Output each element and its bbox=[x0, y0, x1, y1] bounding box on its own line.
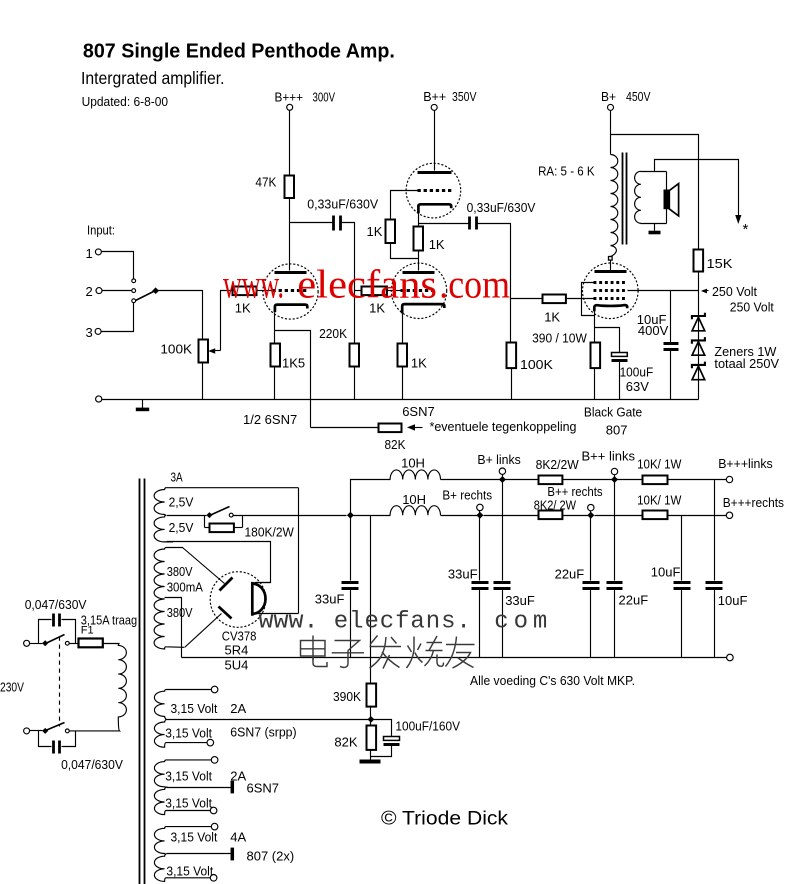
wire selector to volume pot bbox=[156, 291, 203, 340]
svg-text:3,15 Volt: 3,15 Volt bbox=[171, 701, 218, 716]
mains primary winding bbox=[69, 643, 126, 731]
tube V2a envelope (upper) bbox=[406, 163, 461, 218]
resistor 390K bbox=[367, 684, 377, 707]
svg-text:22uF: 22uF bbox=[555, 567, 585, 582]
807 cathode bbox=[594, 305, 627, 311]
svg-text:1K5: 1K5 bbox=[282, 356, 305, 371]
svg-text:com: com bbox=[494, 609, 547, 636]
ground terminal bbox=[96, 396, 102, 402]
capacitor 100uF/160V bbox=[384, 737, 400, 741]
chinese watermark 友 bbox=[446, 637, 475, 669]
capacitor 10uF (B+++ rechts) bbox=[681, 516, 683, 581]
winding C terminal top bbox=[211, 823, 218, 830]
B++ rechts junction dot bbox=[587, 512, 594, 519]
B++ links junction dot bbox=[611, 476, 618, 483]
wire pot wiper to grid resistor bbox=[221, 291, 233, 351]
resistor 1K grid V2a bbox=[386, 220, 396, 244]
svg-text:390K: 390K bbox=[333, 689, 361, 704]
wire 1K to bias tee bbox=[391, 243, 419, 259]
wire 8K2 to B++ links bbox=[563, 479, 615, 481]
807 grid stopper lead bbox=[511, 298, 543, 300]
switch link (dashed) bbox=[59, 637, 61, 727]
resistor 100K (grid leak 807) bbox=[507, 343, 517, 369]
svg-text:15K: 15K bbox=[707, 256, 733, 271]
svg-text:Alle voeding C's 630 Volt MKP.: Alle voeding C's 630 Volt MKP. bbox=[470, 673, 635, 688]
CV378 filament bbox=[252, 582, 265, 616]
svg-text:1K: 1K bbox=[544, 310, 560, 325]
svg-text:230V: 230V bbox=[0, 679, 24, 694]
filament winding 2,5V lower bbox=[154, 515, 173, 542]
secondary bottom wire bbox=[641, 223, 667, 225]
svg-text:B+++: B+++ bbox=[275, 90, 304, 105]
svg-text:© Triode Dick: © Triode Dick bbox=[381, 808, 508, 830]
CT junction dot bbox=[368, 716, 375, 723]
resistor 1K grid V1 bbox=[233, 287, 257, 296]
rectifier tube CV378 envelope bbox=[210, 572, 266, 628]
standby switch blade bbox=[210, 507, 230, 516]
svg-text:10uF: 10uF bbox=[718, 593, 748, 608]
svg-text:B++ rechts: B++ rechts bbox=[547, 484, 603, 499]
winding C (807) bbox=[154, 827, 211, 882]
svg-text:10H: 10H bbox=[401, 456, 425, 471]
svg-text:3A: 3A bbox=[171, 470, 183, 485]
beam plate bracket to cathode bbox=[582, 283, 595, 316]
cathode bypass tee bbox=[595, 328, 620, 353]
HV winding 380-0-380 bbox=[154, 548, 184, 650]
svg-text:6SN7 (srpp): 6SN7 (srpp) bbox=[230, 725, 296, 740]
mains terminal bottom bbox=[24, 728, 30, 734]
top cap leads bbox=[39, 620, 52, 644]
TITLE BLOCK bbox=[81, 41, 395, 109]
HV bottom lead to anode 2 bbox=[185, 614, 222, 648]
winding A terminal bottom bbox=[207, 739, 214, 746]
svg-text:F1: F1 bbox=[81, 625, 94, 637]
svg-text:300mA: 300mA bbox=[167, 580, 203, 595]
wire B+ rechts to 390K bbox=[370, 516, 372, 684]
V2a grid (dotted) bbox=[418, 189, 452, 192]
svg-text:220K: 220K bbox=[319, 326, 347, 341]
fuse F1 bbox=[79, 639, 103, 648]
svg-text:100uF/160V: 100uF/160V bbox=[395, 718, 460, 733]
grid junction wire bbox=[355, 290, 362, 292]
svg-text:4A: 4A bbox=[230, 829, 246, 844]
wire top cap to plate bbox=[610, 261, 612, 271]
svg-text:33uF: 33uF bbox=[505, 593, 535, 608]
B+ rechts terminal bbox=[477, 504, 483, 510]
input terminal 3 bbox=[95, 328, 101, 334]
wire 1K to V2b plate bbox=[418, 251, 420, 271]
svg-text:8K2/2W: 8K2/2W bbox=[536, 457, 580, 472]
CV378 anode 1 bbox=[220, 578, 233, 591]
feedback arrow bbox=[411, 427, 423, 429]
svg-text:elecfans: elecfans bbox=[297, 262, 437, 307]
svg-text:0,33uF/630V: 0,33uF/630V bbox=[467, 200, 536, 215]
807 cathode lead bbox=[594, 311, 596, 343]
HV top lead to anode 1 bbox=[183, 548, 225, 584]
180K/2W parallel connections bbox=[204, 516, 206, 528]
CV378 anode 2 bbox=[219, 607, 232, 619]
capacitor 10uF (B+++ links) bbox=[714, 480, 716, 581]
pot bottom to ground rail bbox=[202, 363, 204, 400]
capacitor 22uF (B++ links) bbox=[614, 480, 616, 581]
capacitor 100uF/160V branch bbox=[371, 720, 392, 737]
mains switch blade top bbox=[46, 635, 65, 644]
svg-text:B++ links: B++ links bbox=[582, 448, 636, 463]
svg-text:1: 1 bbox=[86, 246, 93, 261]
svg-text:3,15 Volt: 3,15 Volt bbox=[166, 864, 213, 879]
resistor 390/10W bbox=[591, 343, 601, 369]
winding B terminal top bbox=[211, 757, 218, 764]
100uF return wire bbox=[371, 746, 392, 757]
svg-text:100uF: 100uF bbox=[620, 365, 654, 380]
svg-text:B++: B++ bbox=[423, 89, 446, 104]
svg-text:10K/ 1W: 10K/ 1W bbox=[637, 457, 682, 472]
winding B center tap bbox=[167, 787, 231, 789]
wire filament to 2,5V top winding bbox=[298, 488, 300, 614]
resistor 1K (807 grid) bbox=[543, 295, 566, 304]
transformer core bbox=[139, 479, 141, 884]
output transformer primary bbox=[611, 155, 618, 246]
svg-text:100K: 100K bbox=[160, 342, 192, 357]
807 screen wire to 250V node bbox=[628, 290, 699, 292]
wire contact to fuse bbox=[70, 643, 79, 645]
speaker cone bbox=[669, 184, 678, 216]
wire 8K2 to B++ rechts bbox=[563, 515, 591, 517]
V2b cathode lead bbox=[402, 314, 404, 344]
wire fuse to primary bbox=[103, 643, 120, 645]
capacitor 22uF (B++ rechts) bbox=[590, 516, 592, 581]
B+++ rechts terminal bbox=[726, 512, 732, 518]
resistor 8K2/2W (rechts) bbox=[539, 511, 563, 520]
svg-text:250 Volt: 250 Volt bbox=[730, 299, 774, 314]
wire B+ takeoff (switch row) bbox=[167, 515, 207, 517]
feedback arrow head bbox=[735, 215, 741, 224]
resistor 1K cathode V2b bbox=[398, 344, 408, 367]
wire 2,5V bottom to filament bbox=[167, 542, 271, 583]
wire choke1 to B+ links bbox=[441, 479, 503, 481]
svg-text:Input:: Input: bbox=[87, 224, 115, 238]
svg-text:3,15 Volt: 3,15 Volt bbox=[165, 725, 212, 740]
V1 grid lead bbox=[257, 290, 273, 292]
zener D1 bbox=[692, 313, 705, 320]
svg-text:B+ rechts: B+ rechts bbox=[442, 488, 492, 503]
selector output junction dot bbox=[152, 287, 159, 294]
resistor 180K/2W bbox=[210, 524, 234, 533]
B+ links terminal bbox=[499, 468, 505, 474]
B++ links terminal bbox=[611, 468, 617, 474]
PSU ground terminal bbox=[727, 654, 734, 661]
svg-text:*eventuele tegenkoppeling: *eventuele tegenkoppeling bbox=[430, 419, 577, 434]
wire 1K to ground bbox=[402, 367, 404, 400]
V2b plate bbox=[403, 271, 435, 274]
wire input3 to selector contact bbox=[102, 303, 134, 332]
wire B++ to upper plate bbox=[434, 111, 436, 171]
winding A terminal top bbox=[211, 686, 218, 693]
svg-text:6SN7: 6SN7 bbox=[247, 781, 280, 796]
svg-text:807 (2x): 807 (2x) bbox=[247, 849, 295, 864]
wire zeners to ground rail bbox=[698, 316, 700, 400]
svg-text:3,15 Volt: 3,15 Volt bbox=[165, 796, 212, 811]
svg-text:5U4: 5U4 bbox=[225, 657, 249, 672]
capacitor 10uF/400V bbox=[664, 342, 679, 345]
winding B (6SN7) bbox=[154, 760, 211, 815]
winding B terminal bottom bbox=[210, 807, 217, 814]
807 grid lead to tube bbox=[567, 298, 594, 300]
V2a grid lead bbox=[391, 191, 418, 220]
output transformer core bbox=[622, 153, 624, 245]
capacitor 33uF (B+ rechts) bbox=[479, 516, 481, 581]
wire B+ branch to 15K bbox=[611, 135, 699, 250]
V2b grid lead bbox=[388, 290, 401, 292]
svg-text:Intergrated amplifier.: Intergrated amplifier. bbox=[81, 68, 225, 88]
svg-text:63V: 63V bbox=[626, 379, 649, 394]
chinese watermark 发 bbox=[370, 636, 402, 669]
svg-text:1K: 1K bbox=[429, 237, 445, 252]
svg-text:82K: 82K bbox=[385, 437, 406, 452]
V2a cathode lead to output node bbox=[418, 214, 420, 227]
wire B++ links to 10K bbox=[615, 479, 643, 481]
svg-text:100K: 100K bbox=[520, 357, 553, 372]
wire 10K to B+++ links terminal bbox=[668, 479, 727, 481]
svg-text:B+ links: B+ links bbox=[477, 452, 521, 467]
807 top cap square bbox=[609, 257, 613, 261]
svg-text:1K: 1K bbox=[367, 224, 383, 239]
zener D2 bbox=[692, 337, 705, 344]
V2b grid (dotted) bbox=[401, 289, 437, 292]
svg-text:3,15 Volt: 3,15 Volt bbox=[165, 768, 212, 783]
wire 390 to ground rail bbox=[594, 369, 596, 400]
capacitor 33uF (first, at B+ node) bbox=[350, 516, 352, 581]
wire choke2 input bbox=[354, 515, 391, 517]
svg-text:380V: 380V bbox=[167, 605, 193, 620]
V2a cathode bbox=[418, 204, 451, 213]
svg-text:47K: 47K bbox=[255, 175, 276, 190]
choke 10H (rechts) bbox=[390, 506, 440, 516]
V1 plate lead bbox=[289, 223, 291, 271]
807 top-cap squiggle bbox=[611, 246, 617, 257]
capacitor 33uF (B+ links) bbox=[502, 480, 504, 581]
input terminal 2 bbox=[96, 288, 102, 294]
input terminal 1 bbox=[95, 249, 101, 255]
svg-text:380V: 380V bbox=[167, 564, 193, 579]
filament bottom lead bbox=[255, 613, 299, 615]
wire plate node to coupling cap bbox=[290, 222, 333, 224]
svg-text:22uF: 22uF bbox=[619, 593, 649, 608]
potentiometer 100K body bbox=[199, 340, 209, 363]
V2b cathode bbox=[402, 304, 444, 313]
capacitor 0,047/630V top bbox=[52, 614, 55, 627]
choke 10H (links) bbox=[390, 470, 440, 480]
svg-text:B+++links: B+++links bbox=[718, 456, 773, 471]
svg-text:3: 3 bbox=[86, 325, 93, 340]
svg-text:1/2 6SN7: 1/2 6SN7 bbox=[243, 412, 297, 427]
V1 grid (dotted) bbox=[273, 289, 309, 292]
standby switch contact bbox=[229, 513, 233, 517]
resistor 8K2/2W (links) bbox=[539, 476, 563, 485]
svg-text:6SN7: 6SN7 bbox=[402, 404, 435, 419]
wire 220K to ground bbox=[354, 367, 356, 400]
250V node annotation arrow bbox=[703, 290, 709, 292]
mains switch contact top bbox=[65, 641, 69, 645]
capacitor 100uF/63V (Black Gate) bbox=[612, 353, 628, 357]
wire 1K5 to ground bbox=[274, 367, 276, 400]
svg-text:0,047/630V: 0,047/630V bbox=[61, 757, 123, 772]
resistor 1K5 bbox=[271, 344, 281, 367]
svg-text:www.: www. bbox=[259, 609, 319, 636]
resistor 82K (elevation) bbox=[367, 726, 377, 750]
wire B++ rechts to 10K bbox=[595, 515, 643, 517]
elevation ground bar bbox=[360, 760, 381, 764]
B+++ links terminal bbox=[726, 476, 732, 482]
capacitor 0,047/630V bottom bbox=[52, 741, 55, 754]
svg-text:82K: 82K bbox=[334, 735, 358, 750]
B++ terminal bbox=[431, 104, 437, 110]
secondary winding bbox=[635, 171, 641, 223]
winding C center tap bbox=[167, 853, 231, 855]
zener D3 bbox=[692, 362, 705, 369]
resistor 1K grid V2b bbox=[362, 287, 387, 296]
B++ rechts terminal bbox=[588, 504, 594, 510]
svg-text:0,047/630V: 0,047/630V bbox=[25, 597, 87, 612]
svg-text:807: 807 bbox=[606, 423, 628, 438]
svg-text:2: 2 bbox=[86, 284, 93, 299]
svg-text:390 / 10W: 390 / 10W bbox=[532, 331, 587, 346]
wire 10K to B+++ rechts terminal bbox=[668, 515, 727, 517]
svg-text:totaal 250V: totaal 250V bbox=[714, 356, 779, 371]
PSU ground rail bbox=[182, 657, 727, 659]
secondary top wire bbox=[641, 171, 667, 173]
svg-text:10uF: 10uF bbox=[651, 565, 681, 580]
svg-text:elecfans.: elecfans. bbox=[334, 609, 471, 636]
wire 47K to plate node bbox=[289, 199, 291, 223]
resistor 47K bbox=[285, 176, 295, 199]
selector contact 2 bbox=[132, 289, 136, 293]
chinese watermark 烧 bbox=[407, 636, 444, 668]
wire cathode to 1K5 bbox=[274, 331, 276, 344]
wire terminal to switch bbox=[30, 643, 43, 645]
bottom cap leads bbox=[39, 731, 52, 747]
B+ links junction dot bbox=[499, 476, 506, 483]
wire B+ down bbox=[610, 111, 612, 155]
svg-text:2A: 2A bbox=[230, 701, 246, 716]
wire input2 to selector contact bbox=[103, 290, 132, 292]
mains switch contact bottom bbox=[65, 729, 69, 733]
svg-text:450V: 450V bbox=[626, 89, 651, 104]
wire switch to B+ node bbox=[234, 515, 347, 517]
svg-text:8K2/ 2W: 8K2/ 2W bbox=[534, 498, 577, 513]
svg-text:10H: 10H bbox=[402, 492, 426, 507]
807 plate bbox=[595, 270, 627, 273]
junction dot B+ node bbox=[347, 512, 354, 519]
B+++ terminal bbox=[287, 104, 293, 110]
wire B+++ to 47K bbox=[289, 111, 291, 176]
svg-text:10K/ 1W: 10K/ 1W bbox=[637, 492, 682, 507]
chinese watermark 电 bbox=[301, 636, 328, 667]
V1 cathode lead bbox=[274, 313, 276, 331]
selector contact 1 bbox=[132, 279, 136, 283]
cathode-feedback tee wire bbox=[275, 331, 311, 428]
wire choke1 input bbox=[351, 480, 391, 516]
mains switch dot top bbox=[42, 640, 48, 646]
svg-text:RA: 5 - 6 K: RA: 5 - 6 K bbox=[538, 164, 595, 179]
pot wiper arrow bbox=[211, 350, 221, 352]
tube 807 envelope bbox=[583, 263, 639, 319]
capacitor 0,33uF/630V (second) bbox=[468, 217, 471, 230]
secondary ground bar bbox=[649, 231, 661, 235]
wire B+ links to 8K2 bbox=[503, 479, 539, 481]
svg-text:Black Gate: Black Gate bbox=[584, 405, 642, 420]
svg-text:2,5V: 2,5V bbox=[169, 494, 194, 509]
mains switch blade bottom bbox=[46, 723, 65, 731]
tube V1 envelope bbox=[263, 264, 318, 319]
winding C terminal bottom bbox=[210, 875, 217, 882]
V1 cathode bbox=[275, 305, 307, 313]
mains terminal top bbox=[24, 640, 30, 646]
wire choke2 to B+ rechts bbox=[441, 515, 480, 517]
wire input1 to selector contact bbox=[102, 252, 134, 279]
selector contact 3 bbox=[132, 299, 136, 303]
resistor 220K bbox=[350, 344, 360, 367]
svg-text:5R4: 5R4 bbox=[225, 642, 249, 657]
svg-text:400V: 400V bbox=[638, 323, 669, 338]
wire cap to 807 grid node bbox=[478, 224, 511, 343]
mains switch dot bottom bbox=[42, 728, 48, 734]
807 control grid row (dotted) bbox=[594, 297, 628, 300]
wire 390K to CT node bbox=[370, 707, 372, 726]
svg-text:*: * bbox=[743, 221, 749, 238]
B+ rechts junction dot bbox=[476, 512, 483, 519]
resistor 1K cathode V2a bbox=[414, 227, 424, 251]
svg-text:.com: .com bbox=[439, 262, 510, 307]
V2a plate bbox=[418, 171, 452, 174]
speaker driver bbox=[664, 190, 669, 210]
svg-text:2A: 2A bbox=[230, 768, 246, 783]
svg-text:807 Single Ended Penthode Amp.: 807 Single Ended Penthode Amp. bbox=[83, 41, 395, 63]
heater CT wire bbox=[167, 719, 371, 721]
wire 100uF to ground rail bbox=[619, 362, 621, 400]
resistor 82K (feedback) bbox=[379, 424, 402, 433]
svg-text:B+: B+ bbox=[601, 89, 616, 104]
standby switch dot bbox=[206, 512, 212, 518]
V1 plate bbox=[275, 271, 307, 274]
HV center tap wire bbox=[165, 598, 182, 658]
svg-text:B+++rechts: B+++rechts bbox=[723, 495, 785, 510]
capacitor 0,33uF/630V (first) bbox=[332, 216, 335, 231]
wire terminal to switch bottom bbox=[30, 730, 43, 732]
selector wiper blade bbox=[136, 291, 156, 301]
svg-text:250 Volt: 250 Volt bbox=[712, 284, 757, 299]
svg-text:Updated: 6-8-00: Updated: 6-8-00 bbox=[82, 95, 169, 109]
wire 82K to ground sym bbox=[370, 750, 372, 760]
B+ terminal bbox=[608, 104, 614, 110]
807 screen grid row (dotted) bbox=[594, 289, 628, 292]
wire 100K to ground rail bbox=[511, 368, 513, 400]
resistor 10K/1W (links) bbox=[643, 476, 668, 485]
svg-text:180K/2W: 180K/2W bbox=[245, 525, 295, 540]
speaker connection line bbox=[666, 172, 668, 224]
wire B+ rechts to 8K2 bbox=[484, 515, 539, 517]
svg-text:33uF: 33uF bbox=[448, 567, 478, 582]
wire 15K to 250V node bbox=[698, 272, 700, 316]
svg-text:3,15 Volt: 3,15 Volt bbox=[171, 829, 218, 844]
resistor 10K/1W (rechts) bbox=[643, 511, 668, 520]
secondary ground stub bbox=[654, 224, 656, 231]
svg-text:0,33uF/630V: 0,33uF/630V bbox=[307, 197, 378, 212]
svg-text:300V: 300V bbox=[313, 90, 336, 105]
output tee wire to coupling cap bbox=[419, 223, 469, 225]
chinese watermark 子 bbox=[332, 641, 364, 668]
svg-text:33uF: 33uF bbox=[315, 592, 345, 607]
